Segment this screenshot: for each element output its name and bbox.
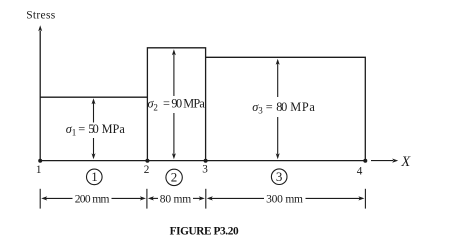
value label sigma2 = 90 MPa — [148, 97, 206, 113]
svg-text:2: 2 — [153, 103, 158, 113]
node 4 dot — [363, 159, 367, 163]
svg-text:=: = — [266, 100, 273, 114]
svg-text:=: = — [163, 97, 170, 111]
svg-text:=: = — [78, 122, 85, 136]
svg-text:3: 3 — [276, 169, 283, 184]
node 2 dot — [145, 159, 149, 163]
segment 2 outline (90 MPa block) — [147, 48, 205, 161]
dimension extension tick at node 2 — [146, 189, 148, 209]
svg-text:1: 1 — [91, 169, 98, 184]
segment 3 outline (80 MPa block) — [206, 57, 366, 160]
stress arrow sigma2 (double-headed, broken by label) — [172, 49, 176, 159]
svg-text:3: 3 — [258, 106, 263, 116]
section marker circled 3 — [271, 169, 287, 185]
caption FIGURE P3.20 — [170, 225, 239, 237]
node 1 dot — [38, 159, 42, 163]
value label sigma1 = 50 MPa — [66, 122, 126, 138]
svg-text:MPa: MPa — [290, 100, 315, 114]
svg-text:4: 4 — [357, 166, 363, 178]
svg-text:50: 50 — [88, 122, 99, 136]
stress arrow sigma1 (double-headed, broken by label) — [92, 98, 96, 159]
svg-text:200 mm: 200 mm — [75, 193, 110, 205]
svg-text:80 mm: 80 mm — [160, 193, 191, 205]
svg-text:300 mm: 300 mm — [266, 194, 303, 206]
section marker circled 2 — [166, 169, 182, 185]
axis label Stress — [26, 10, 56, 22]
node 3 dot — [204, 159, 208, 163]
svg-text:2: 2 — [171, 170, 178, 185]
svg-text:1: 1 — [72, 128, 77, 138]
dimension 300 mm (arrows + label) — [207, 194, 365, 206]
svg-text:X: X — [400, 154, 411, 170]
svg-text:FIGURE P3.20: FIGURE P3.20 — [170, 225, 239, 237]
svg-text:MPa: MPa — [183, 97, 205, 111]
dimension 200 mm (arrows + label) — [41, 193, 146, 205]
svg-text:3: 3 — [202, 163, 208, 175]
x-axis arrow to X — [371, 159, 398, 163]
x-axis baseline — [40, 160, 365, 162]
y-axis (stress axis) with up arrowhead — [38, 25, 42, 160]
svg-text:80: 80 — [276, 100, 287, 114]
svg-text:90: 90 — [171, 97, 182, 111]
node label 1 — [36, 164, 42, 176]
node label 4 — [357, 166, 363, 178]
segment 1 outline (50 MPa block), top edge — [40, 96, 147, 98]
section marker circled 1 — [87, 169, 103, 185]
value label sigma3 = 80 MPa — [252, 100, 315, 116]
svg-text:2: 2 — [144, 164, 150, 176]
node label 3 — [202, 163, 208, 175]
svg-text:MPa: MPa — [102, 122, 126, 136]
dimension extension tick at node 4 — [364, 189, 366, 209]
svg-text:1: 1 — [36, 164, 42, 176]
dimension extension tick at node 3 — [205, 189, 207, 209]
dimension extension tick at node 1 — [39, 189, 41, 209]
node label 2 — [144, 164, 150, 176]
stress arrow sigma3 (double-headed, broken by label) — [276, 59, 280, 160]
axis label X — [400, 154, 411, 170]
svg-text:Stress: Stress — [26, 10, 56, 22]
dimension 80 mm (arrows + label) — [148, 193, 205, 205]
